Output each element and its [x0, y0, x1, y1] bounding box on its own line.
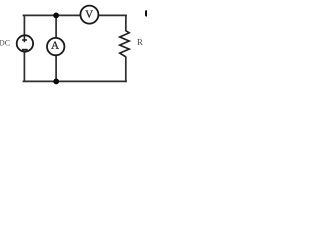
- DC source V1 (circle): [17, 35, 33, 51]
- cropped glyph fragment at right edge: [145, 10, 148, 16]
- voltmeter V1 (circle): [80, 6, 98, 24]
- wire: top horizontal (node between source branch, ammeter branch and voltmeter): [23, 14, 127, 16]
- voltmeter label V: [85, 10, 93, 17]
- resistor R (zigzag body): [120, 31, 130, 57]
- ammeter label A: [51, 42, 59, 49]
- label: DC (source name): [0, 40, 10, 45]
- DC source plus terminal mark: [22, 36, 27, 42]
- ammeter A1 (circle): [47, 38, 64, 55]
- wire: left branch vertical (DC source branch): [23, 15, 25, 81]
- wire: right branch upper lead (top wire to resistor): [125, 15, 127, 31]
- wire: bottom horizontal return: [23, 80, 127, 82]
- junction node: bottom (dot): [53, 79, 59, 85]
- junction node: top (dot): [53, 13, 59, 19]
- DC source minus terminal mark: [22, 49, 28, 51]
- wire: right branch lower lead (resistor to bottom wire): [125, 56, 127, 81]
- wire: middle branch vertical (ammeter branch): [55, 15, 57, 81]
- label: R (resistor value): [137, 39, 143, 45]
